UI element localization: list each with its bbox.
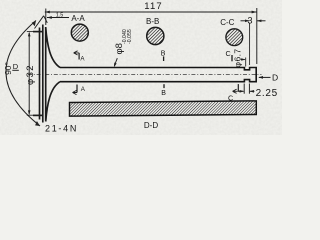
svg-text:φ32: φ32 xyxy=(25,64,36,85)
svg-text:C-C: C-C xyxy=(220,18,234,27)
svg-text:C: C xyxy=(226,49,231,58)
svg-text:A-A: A-A xyxy=(71,14,85,23)
svg-text:D-D: D-D xyxy=(144,121,158,130)
svg-text:B-B: B-B xyxy=(146,17,159,26)
svg-text:90°: 90° xyxy=(3,62,13,75)
svg-text:φ6.7: φ6.7 xyxy=(232,49,242,68)
svg-text:B: B xyxy=(161,90,166,97)
svg-text:117: 117 xyxy=(144,1,162,12)
svg-text:-0.055: -0.055 xyxy=(127,29,133,44)
svg-text:2.25: 2.25 xyxy=(256,88,278,99)
svg-text:D: D xyxy=(13,62,19,71)
svg-text:21-4N: 21-4N xyxy=(45,124,78,134)
svg-text:D: D xyxy=(272,73,278,83)
